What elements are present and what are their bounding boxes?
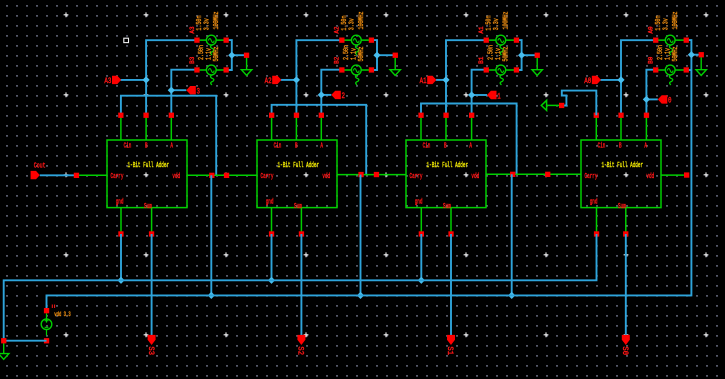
svg-text:3.3v: 3.3v <box>492 18 500 30</box>
svg-text:3.3v: 3.3v <box>662 18 670 30</box>
svg-text:1-Bit Full Adder: 1-Bit Full Adder <box>602 161 644 169</box>
ground gnd1 <box>241 53 251 76</box>
value label vdc <box>52 305 70 319</box>
svg-text:Carry: Carry <box>410 172 423 180</box>
wire carry chain U3.vdd to U4.Carry <box>486 173 581 175</box>
junction source pair stage2 <box>373 52 380 59</box>
junction node B0 <box>643 96 650 103</box>
svg-text:Cin: Cin <box>423 141 431 149</box>
svg-text:Sum: Sum <box>618 202 626 210</box>
wire vdd drop stage2 <box>360 175 362 296</box>
svg-text:B: B <box>295 141 298 149</box>
svg-text:vdd 3.3: vdd 3.3 <box>54 311 70 318</box>
input pin Cin <box>541 100 564 110</box>
svg-text:A3: A3 <box>104 77 111 86</box>
value labels vsin V4 <box>342 45 365 62</box>
output pin S3 <box>146 335 156 356</box>
value labels vsin V1 <box>195 11 220 30</box>
pin squares U3 top <box>418 113 474 118</box>
ground gnd5 <box>0 338 9 359</box>
wire U3 gnd to rail <box>420 234 422 280</box>
svg-text:100MHz: 100MHz <box>671 11 679 29</box>
origin marker <box>124 38 129 42</box>
svg-text:A: A <box>320 141 323 149</box>
junction rail2 stage3 <box>508 292 515 299</box>
wire U2 gnd to rail <box>271 234 273 280</box>
svg-text:gnd: gnd <box>116 197 124 205</box>
wire U1 gnd to rail <box>120 234 122 280</box>
net label A0 <box>648 26 655 34</box>
value labels vsin V3 <box>340 11 365 30</box>
svg-text:50MHz: 50MHz <box>212 46 220 61</box>
net label A3 <box>189 26 196 34</box>
pin squares U4 bottom <box>594 231 628 236</box>
vsin source V7 (A0) <box>653 35 689 55</box>
pin squares U3 bottom <box>419 231 454 236</box>
svg-text:A1: A1 <box>420 77 427 86</box>
input pin B3 <box>186 86 200 97</box>
wire Sum2 <box>300 234 302 335</box>
pin squares carry chain 3 <box>510 172 550 177</box>
net label A2 <box>334 26 341 34</box>
svg-text:50MHz: 50MHz <box>357 46 365 61</box>
svg-text:50MHz: 50MHz <box>502 46 510 61</box>
svg-text:B: B <box>619 141 622 149</box>
wire source junction stage2 <box>371 40 395 70</box>
svg-text:vdd: vdd <box>471 172 479 180</box>
full-adder block U3 <box>406 115 486 234</box>
svg-text:Carry: Carry <box>585 172 598 180</box>
ground gnd3 <box>532 53 542 76</box>
output pin S1 <box>445 335 455 356</box>
svg-text:A: A <box>170 141 173 149</box>
wire carry bus stage3 <box>421 104 517 175</box>
svg-text:B: B <box>444 141 447 149</box>
pin squares U2 bottom <box>269 231 304 236</box>
vdc source V9 <box>41 308 52 343</box>
svg-text:3: 3 <box>197 88 201 97</box>
svg-text:Sum: Sum <box>294 202 302 210</box>
svg-text:B3: B3 <box>189 56 196 64</box>
svg-text:Cout: Cout <box>34 162 46 170</box>
svg-text:vdd: vdd <box>322 172 330 180</box>
net label B0 <box>648 56 655 64</box>
junction node A3 <box>143 76 150 83</box>
vsin source V6 (B1) <box>484 65 519 85</box>
wire Cin to U4.Cin <box>562 91 597 116</box>
junction rail1 stage3 <box>418 277 425 284</box>
svg-text:50MHz: 50MHz <box>671 46 679 61</box>
wire source junction stage3 <box>516 40 537 70</box>
wire source junction stage4 and vdd riser <box>686 40 701 295</box>
pin square U4.vdd <box>661 172 689 177</box>
output pin S0 <box>620 335 630 356</box>
svg-text:B0: B0 <box>648 56 655 64</box>
svg-text:Carry: Carry <box>261 172 274 180</box>
junction source pair stage1 <box>228 52 235 59</box>
wire A0 net <box>600 40 655 115</box>
input pin B1 <box>487 91 501 102</box>
wire carry chain U2.vdd to U3.Carry <box>337 174 406 176</box>
junction node B3 <box>168 87 175 94</box>
svg-text:gnd: gnd <box>590 197 598 205</box>
wire Sum3 <box>151 234 153 335</box>
junction source pair stage3 <box>518 52 525 59</box>
vsin source V3 (A2) <box>339 35 374 55</box>
wire Cout to U1.Carry <box>40 173 107 178</box>
wire B1 net <box>472 70 487 116</box>
value labels vsin V2 <box>197 45 220 62</box>
wire B0 net <box>646 70 657 116</box>
svg-text:B2: B2 <box>334 56 341 64</box>
svg-text:A2: A2 <box>334 26 341 34</box>
pin squares carry chain 2 <box>358 172 379 177</box>
input pin B2 <box>331 91 345 102</box>
wire B2 net <box>321 70 342 116</box>
wire vdd drop stage3 <box>511 174 513 295</box>
pin squares U4 top <box>594 113 650 118</box>
svg-text:Cin: Cin <box>598 141 606 149</box>
svg-text:gnd: gnd <box>415 197 423 205</box>
svg-text:vdd: vdd <box>646 172 654 180</box>
svg-text:0: 0 <box>668 97 672 106</box>
junction node B2 <box>318 91 325 98</box>
value labels vsin V6 <box>487 45 510 62</box>
junction node B1 <box>468 91 475 98</box>
svg-text:1: 1 <box>497 93 501 102</box>
svg-text:B1: B1 <box>478 56 485 64</box>
wire A2 net <box>281 40 342 115</box>
vsin source V2 (B3) <box>194 65 229 85</box>
net label A1 <box>478 26 485 34</box>
svg-text:Sum: Sum <box>443 202 451 210</box>
vsin source V8 (B0) <box>653 65 689 85</box>
net label B3 <box>189 56 196 64</box>
net label B2 <box>334 56 341 64</box>
wire A3 net <box>121 40 198 115</box>
junction rail1 stage2 <box>268 277 275 284</box>
input pin A3 <box>104 76 121 87</box>
wire gnd rail <box>4 234 597 341</box>
wire carry bus stage2 <box>272 105 367 175</box>
value labels vsin V5 <box>485 11 510 30</box>
ground gnd4 <box>696 52 706 75</box>
svg-text:Sum: Sum <box>144 202 152 210</box>
pin squares U1 bottom <box>118 231 154 236</box>
full-adder block U4 <box>581 115 661 234</box>
svg-text:100MHz: 100MHz <box>212 11 220 29</box>
input pin B0 <box>658 95 672 106</box>
value labels vsin V8 <box>656 45 679 62</box>
svg-text:A: A <box>469 141 472 149</box>
value labels vsin V7 <box>654 11 679 30</box>
junction node A0 <box>617 76 624 83</box>
svg-text:gnd: gnd <box>266 197 274 205</box>
junction rail2 stage1 <box>208 292 215 299</box>
svg-text:A: A <box>644 141 647 149</box>
svg-text:100MHz: 100MHz <box>357 11 365 29</box>
output pin Cout <box>31 162 46 179</box>
wire source junction stage1 <box>226 40 246 70</box>
input pin A1 <box>420 76 437 87</box>
wire Sum1 <box>450 234 452 335</box>
wire A1 net <box>436 40 487 115</box>
svg-text:S2: S2 <box>295 346 303 355</box>
pin squares carry chain 1 <box>209 173 229 178</box>
input pin A2 <box>265 76 282 87</box>
junction node A2 <box>293 76 300 83</box>
vsin source V5 (A1) <box>484 35 519 55</box>
svg-text:1-Bit Full Adder: 1-Bit Full Adder <box>128 161 170 169</box>
junction rail2 stage2 <box>357 292 364 299</box>
svg-text:3.3v: 3.3v <box>348 18 356 30</box>
junction node A1 <box>442 76 449 83</box>
input pin A0 <box>584 76 601 87</box>
svg-text:S1: S1 <box>445 346 453 355</box>
svg-text:100MHz: 100MHz <box>502 11 510 29</box>
svg-text:vdd: vdd <box>172 172 180 180</box>
pin squares U2 top <box>269 113 324 118</box>
full-adder block U2 <box>257 115 337 234</box>
wire vdd drop stage1 <box>210 175 212 295</box>
svg-text:A0: A0 <box>648 26 655 34</box>
svg-text:A0: A0 <box>584 77 591 86</box>
vsin source V4 (B2) <box>339 65 374 85</box>
wire vdd rail <box>47 295 692 310</box>
svg-text:1-Bit Full Adder: 1-Bit Full Adder <box>278 161 320 169</box>
full-adder block U1 <box>107 115 187 234</box>
svg-text:Cin: Cin <box>124 141 132 149</box>
svg-text:3.3v: 3.3v <box>203 18 211 30</box>
wire carry chain U1.vdd to U2.Carry <box>187 174 257 176</box>
svg-text:Cin: Cin <box>274 141 282 149</box>
net label B1 <box>478 56 485 64</box>
svg-text:S3: S3 <box>146 346 154 355</box>
junction rail1 stage1 <box>117 277 124 284</box>
svg-text:Carry: Carry <box>111 172 124 180</box>
junction source pair stage4 <box>688 51 695 58</box>
wire B3 net <box>171 70 197 116</box>
wire carry bus stage1 <box>121 96 216 176</box>
pin squares U1 top <box>118 113 174 118</box>
svg-text:A3: A3 <box>189 26 196 34</box>
svg-text:A1: A1 <box>478 26 485 34</box>
svg-text:B: B <box>145 141 148 149</box>
svg-text:1-Bit Full Adder: 1-Bit Full Adder <box>427 161 469 169</box>
wire Sum0 <box>625 234 627 335</box>
svg-text:A2: A2 <box>265 77 272 86</box>
svg-text:2: 2 <box>342 92 346 101</box>
vsin source V1 (A3) <box>194 35 229 55</box>
svg-text:S0: S0 <box>620 346 628 355</box>
wire vdc minus to ground <box>4 340 47 342</box>
ground gnd2 <box>390 53 400 76</box>
output pin S2 <box>295 335 305 356</box>
